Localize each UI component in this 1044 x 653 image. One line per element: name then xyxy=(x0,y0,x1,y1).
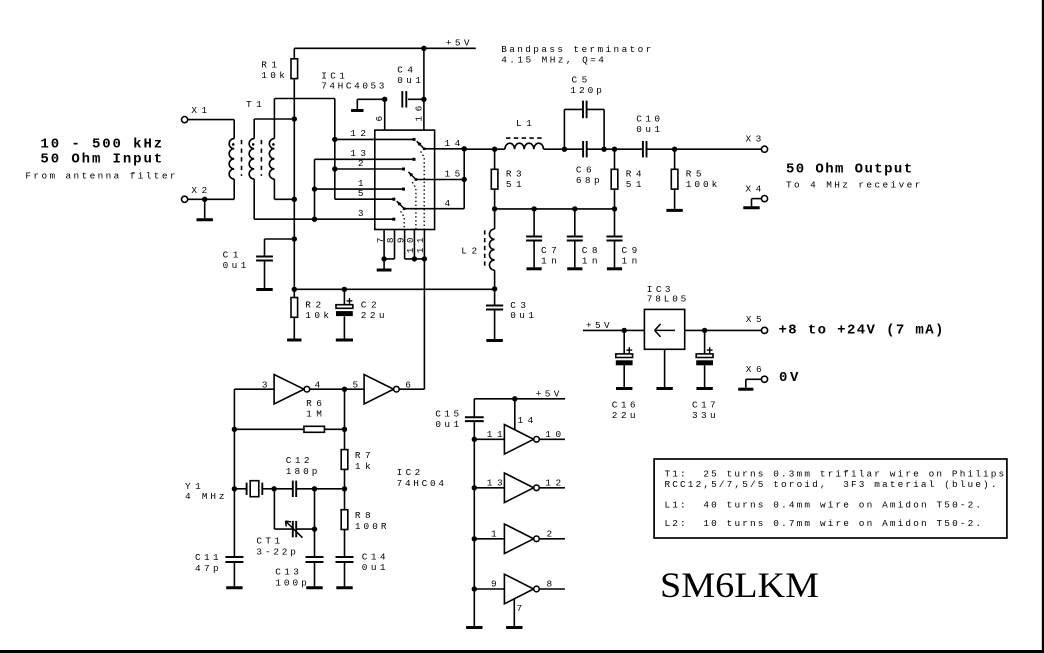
svg-text:To 4 MHz receiver: To 4 MHz receiver xyxy=(786,180,920,191)
wire control bus to oscillator xyxy=(399,259,424,389)
ground at X6 xyxy=(738,379,761,389)
svg-text:7: 7 xyxy=(375,238,386,244)
node X3 output connector xyxy=(746,134,768,153)
svg-text:1: 1 xyxy=(491,529,497,540)
IC1 switch arm a xyxy=(417,141,435,150)
svg-text:0u1: 0u1 xyxy=(510,310,534,321)
inverter IC2c xyxy=(474,425,565,455)
svg-text:9: 9 xyxy=(491,579,497,590)
svg-text:0u1: 0u1 xyxy=(397,75,421,86)
resistor R2 xyxy=(287,298,329,341)
regulator IC3 body xyxy=(644,309,684,349)
crystal Y1 xyxy=(185,481,277,502)
wire T1 secondary top to R1 node xyxy=(254,116,297,138)
node X6 connector xyxy=(746,364,768,383)
power text 0V xyxy=(779,370,799,386)
IC1 pin 7 wire xyxy=(375,230,386,259)
node X1 input connector xyxy=(182,105,208,123)
resistor R4 xyxy=(611,149,642,209)
trimmer CT1 xyxy=(256,489,317,558)
svg-text:68p: 68p xyxy=(576,175,600,186)
svg-text:10k: 10k xyxy=(261,70,285,81)
wire bias bus xyxy=(292,287,495,292)
resistor R8 xyxy=(341,510,387,557)
svg-text:L2: 10 turns 0.7mm wire on Am: L2: 10 turns 0.7mm wire on Amidon T50-2. xyxy=(665,518,982,529)
ground at IC2 input rail xyxy=(466,626,482,629)
winding notes box xyxy=(654,459,1007,538)
svg-text:RCC12,5/7,5/5 toroid, 3F3 mat: RCC12,5/7,5/5 toroid, 3F3 material (blue… xyxy=(665,479,997,490)
IC1 switch arm b xyxy=(408,172,434,181)
resistor R3 xyxy=(491,149,522,209)
IC1 pin 8 wire xyxy=(384,230,396,259)
IC2 pin 7 wire xyxy=(514,599,522,626)
capacitor C16 xyxy=(612,330,636,421)
capacitor C5 xyxy=(564,75,604,150)
svg-text:7: 7 xyxy=(517,603,523,614)
resistor R6 xyxy=(234,398,347,432)
wire pins 14-15-4 junction xyxy=(462,146,467,209)
wire T1 tertiary top to IC1 switch net xyxy=(274,99,334,139)
wire X2 to T1 primary xyxy=(188,197,235,202)
svg-text:22u: 22u xyxy=(612,410,636,421)
IC1 switch control dotted lines xyxy=(401,151,425,229)
resistor R5 xyxy=(671,149,717,209)
svg-text:C13: C13 xyxy=(275,567,299,578)
output description text xyxy=(786,162,920,191)
signature SM6LKM xyxy=(660,565,819,605)
wire IC3 output xyxy=(685,328,762,333)
node X4 connector xyxy=(746,183,768,201)
power text +8 to +24V xyxy=(779,322,944,338)
ground at IC2 pin 7 xyxy=(506,626,522,629)
svg-text:+5V: +5V xyxy=(586,320,610,331)
inductor L1 xyxy=(505,118,544,149)
IC1 pin 15 wire xyxy=(435,169,465,180)
node X2 input connector xyxy=(182,185,208,202)
capacitor C1 xyxy=(223,236,297,289)
svg-text:47p: 47p xyxy=(195,563,219,574)
capacitor C4 xyxy=(397,65,424,108)
IC1 pin 13 wire xyxy=(315,148,416,161)
ground at X2 xyxy=(197,199,213,219)
inverter IC2e xyxy=(474,524,565,554)
wire main signal line xyxy=(464,147,761,152)
IC1 pin 6 wire xyxy=(374,97,387,131)
capacitor C2 xyxy=(336,289,385,340)
wire IC2 input rail xyxy=(472,421,477,626)
ground at IC3 xyxy=(656,349,672,388)
resistor R1 xyxy=(261,48,297,81)
capacitor C6 xyxy=(576,141,600,186)
winding notes text xyxy=(665,468,1005,529)
transformer T1 primary winding xyxy=(229,139,234,200)
capacitor C3 xyxy=(486,286,534,340)
svg-text:IC2: IC2 xyxy=(397,467,421,478)
svg-text:5: 5 xyxy=(353,379,359,390)
svg-text:+5V: +5V xyxy=(536,389,560,400)
wire shunt bus xyxy=(492,206,617,211)
svg-text:4: 4 xyxy=(445,198,451,209)
svg-text:50 Ohm Output: 50 Ohm Output xyxy=(786,162,912,178)
IC1 pin 10 wire xyxy=(405,230,417,262)
svg-text:0u1: 0u1 xyxy=(362,562,386,573)
svg-text:22u: 22u xyxy=(361,310,385,321)
IC1 pin 16 wire xyxy=(413,48,426,130)
IC1 body xyxy=(375,130,435,229)
svg-text:33u: 33u xyxy=(692,410,716,421)
capacitor C12 xyxy=(274,455,344,497)
inverter IC2d xyxy=(474,473,565,503)
svg-text:0u1: 0u1 xyxy=(223,260,247,271)
IC1 switch arm c xyxy=(397,201,435,210)
inverter IC2f xyxy=(474,574,565,604)
wire osc stage link xyxy=(310,387,364,392)
svg-text:0u1: 0u1 xyxy=(435,419,459,430)
wire X1 to T1 primary xyxy=(188,120,235,139)
wire IC2 +5V rail xyxy=(474,389,565,402)
capacitor C13 xyxy=(275,557,323,588)
IC1 pin 3 wire xyxy=(312,159,396,222)
IC1 pin 14 wire xyxy=(435,138,465,149)
svg-text:C11: C11 xyxy=(195,552,219,563)
wire IC1 control pins bus xyxy=(405,258,425,260)
input description text xyxy=(25,137,175,182)
bandpass note text xyxy=(501,44,651,66)
wire +5V to IC3 xyxy=(583,320,645,333)
capacitor C7 xyxy=(526,209,557,269)
svg-text:+5V: +5V xyxy=(446,38,470,49)
ground at IC1 pins 7,8 xyxy=(377,256,392,270)
svg-text:50 Ohm Input: 50 Ohm Input xyxy=(40,152,162,168)
capacitor C10 xyxy=(636,114,660,158)
svg-text:2: 2 xyxy=(358,158,364,169)
capacitor C14 xyxy=(336,551,386,587)
op IC2 74HC04 label xyxy=(397,467,445,489)
resistor R7 xyxy=(341,450,371,510)
IC1 pin 1 wire xyxy=(315,178,406,191)
svg-text:5: 5 xyxy=(358,188,364,199)
regulator IC3 label xyxy=(647,284,687,305)
wire IC1 switch net vertical xyxy=(332,99,337,200)
node X5 connector xyxy=(746,314,768,334)
IC2 pin 14 wire xyxy=(515,399,534,430)
inverter IC2a (osc) xyxy=(262,375,321,405)
svg-text:2: 2 xyxy=(547,529,553,540)
svg-text:6: 6 xyxy=(374,116,385,122)
svg-text:10k: 10k xyxy=(305,310,329,321)
capacitor C9 xyxy=(607,209,638,269)
svg-text:6: 6 xyxy=(405,379,411,390)
capacitor C11 xyxy=(195,552,243,588)
wire feedback vertical xyxy=(344,389,346,449)
capacitor C17 xyxy=(692,330,716,421)
svg-text:C15: C15 xyxy=(435,409,459,420)
svg-text:C12: C12 xyxy=(286,455,310,466)
svg-text:+8 to +24V (7 mA): +8 to +24V (7 mA) xyxy=(779,322,944,338)
svg-text:CT1: CT1 xyxy=(256,536,280,547)
svg-text:3: 3 xyxy=(358,208,364,219)
svg-text:0u1: 0u1 xyxy=(636,124,660,135)
svg-text:SM6LKM: SM6LKM xyxy=(660,565,819,605)
wire T1 secondary bottom to IC1 pin3 net xyxy=(254,179,314,219)
svg-text:8: 8 xyxy=(547,579,553,590)
IC1 pin 12 wire xyxy=(335,128,416,141)
IC1 pin 5 wire xyxy=(335,188,396,201)
IC1 pin 2 wire xyxy=(335,158,405,171)
transformer T1 tertiary winding xyxy=(269,139,274,179)
inverter IC2b (buffer) xyxy=(353,375,412,405)
transformer T1 core xyxy=(242,140,262,176)
ground at X4 xyxy=(743,199,761,208)
IC1 pin 9 wire xyxy=(395,230,406,259)
transformer T1 label xyxy=(246,99,262,110)
svg-text:10 - 500 kHz: 10 - 500 kHz xyxy=(40,137,162,153)
IC1 pin 4 wire xyxy=(435,198,465,209)
wire T1 tertiary bottom to R1 node xyxy=(274,179,297,202)
svg-text:C14: C14 xyxy=(362,551,386,562)
inductor L2 xyxy=(461,209,494,289)
ground at IC1 pin 6 xyxy=(351,99,385,110)
+5V rail xyxy=(294,38,476,52)
op IC1 74HC4053 label xyxy=(321,70,385,91)
IC1 pin 11 wire xyxy=(415,230,427,262)
capacitor C15 xyxy=(435,399,483,430)
wire osc input xyxy=(232,389,274,557)
ground at R5 xyxy=(666,209,682,212)
capacitor C8 xyxy=(567,209,598,269)
page border bottom xyxy=(0,650,1044,653)
page border right xyxy=(1042,0,1044,653)
transformer T1 secondary winding xyxy=(249,139,254,179)
svg-text:L1: 40 turns 0.4mm wire on Am: L1: 40 turns 0.4mm wire on Amidon T50-2. xyxy=(665,500,982,511)
wire C13 branch xyxy=(314,489,316,557)
wire R1 bottom rail xyxy=(293,79,295,298)
